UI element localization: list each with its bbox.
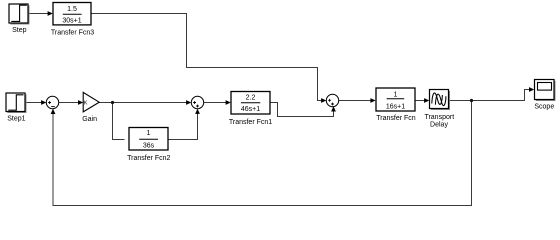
svg-text:Step: Step [12,27,27,34]
svg-text:16s+1: 16s+1 [386,103,405,110]
svg-text:K: K [84,101,88,107]
svg-text:Transfer Fcn2: Transfer Fcn2 [127,155,170,162]
svg-text:1: 1 [147,130,151,137]
svg-text:Delay: Delay [430,122,448,129]
svg-text:Step1: Step1 [7,115,25,122]
svg-text:1.5: 1.5 [67,6,77,13]
svg-text:Transport: Transport [424,114,454,121]
svg-text:36s: 36s [143,143,155,150]
svg-text:2.2: 2.2 [246,95,256,102]
svg-text:Gain: Gain [82,116,97,123]
svg-text:Scope: Scope [534,104,554,111]
svg-text:1: 1 [394,92,398,99]
svg-text:30s+1: 30s+1 [62,18,81,25]
svg-text:Transfer Fcn3: Transfer Fcn3 [51,29,94,36]
svg-text:46s+1: 46s+1 [241,106,260,113]
svg-text:Transfer Fcn1: Transfer Fcn1 [229,119,272,126]
svg-text:Transfer Fcn: Transfer Fcn [376,115,416,122]
